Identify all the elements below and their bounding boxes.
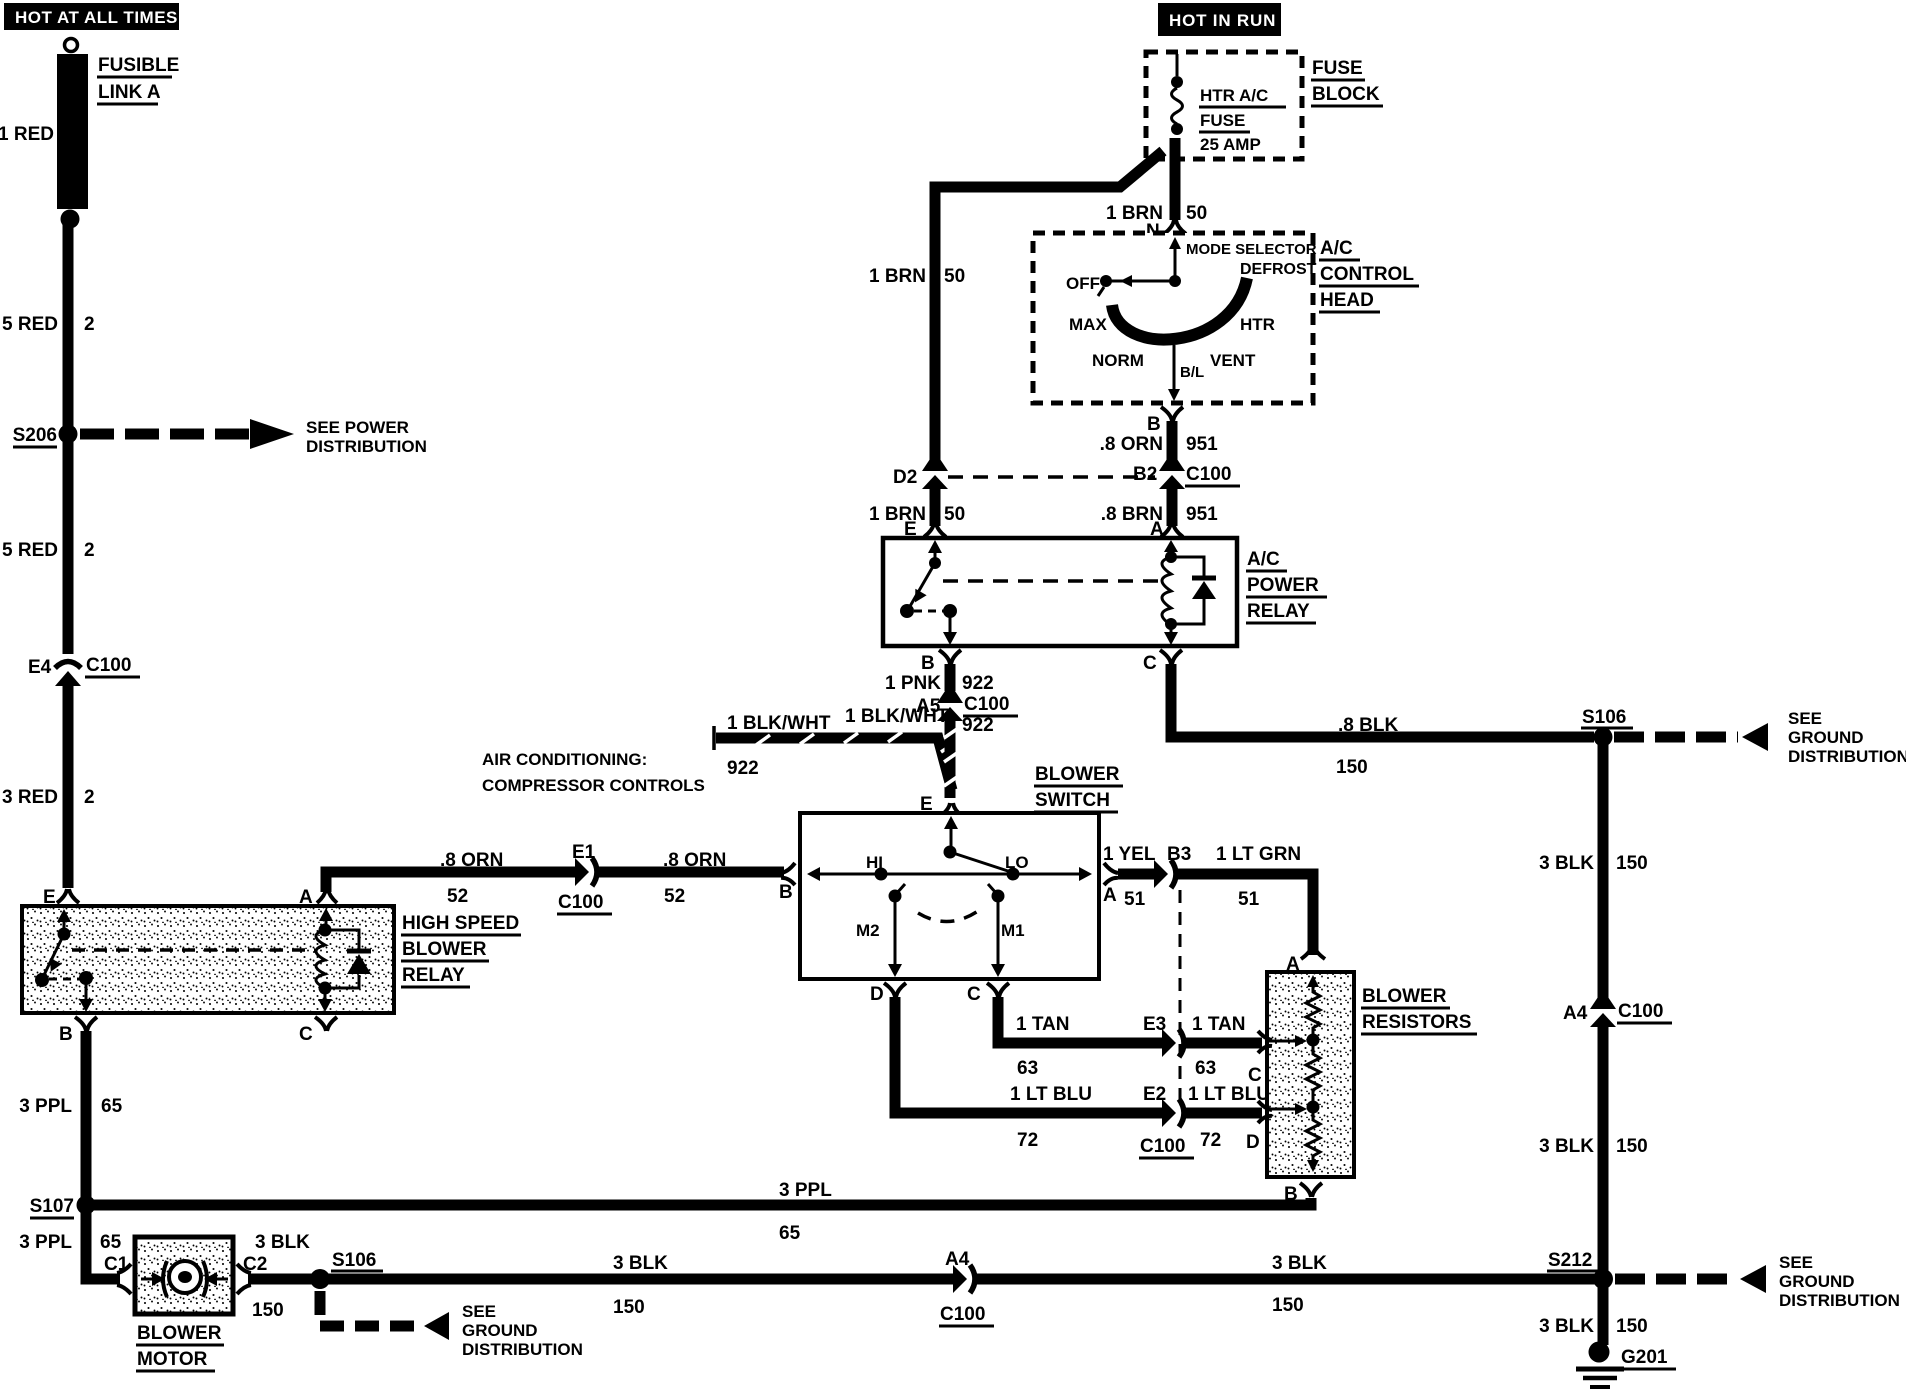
svg-text:MAX: MAX [1069, 315, 1107, 334]
svg-text:C: C [1248, 1065, 1262, 1086]
node S212 [1547, 1250, 1613, 1289]
wire 3 BLK A4 to S212 [1598, 1022, 1609, 1279]
label FUSIBLE LINK A [97, 55, 179, 104]
svg-text:C100: C100 [1618, 1001, 1663, 1022]
banner HOT IN RUN [1158, 3, 1281, 36]
terminal A high speed relay [299, 887, 337, 908]
svg-text:3 BLK: 3 BLK [1539, 853, 1594, 874]
connector A4 C100 (bottom) [939, 1249, 994, 1326]
svg-text:3 BLK: 3 BLK [255, 1232, 310, 1253]
wire dashed S212 to ground distribution [1615, 1253, 1900, 1310]
terminal C1 blower motor [104, 1254, 131, 1294]
svg-text:1 LT BLU: 1 LT BLU [1010, 1084, 1092, 1105]
svg-text:NORM: NORM [1092, 351, 1144, 370]
terminal E high speed relay [43, 887, 79, 908]
wire 3 PPL relay B to S107 [81, 1031, 92, 1200]
terminal E power relay [904, 519, 946, 540]
svg-text:E4: E4 [28, 657, 52, 678]
wire 1 LT BLU E2 to resistors D [1184, 1108, 1262, 1119]
svg-text:HI: HI [866, 853, 883, 872]
resistors D entry arrow [1269, 1103, 1307, 1115]
wire B/L to terminal B [1168, 345, 1180, 401]
wire 1 BRN branch fuse to D2 [935, 151, 1163, 460]
svg-text:1 LT GRN: 1 LT GRN [1216, 844, 1301, 865]
svg-text:HOT IN RUN: HOT IN RUN [1169, 11, 1276, 30]
svg-text:C100: C100 [558, 892, 603, 913]
label 3 BLK 150 (mid segment) [613, 1253, 668, 1318]
label 5 RED 2 [2, 314, 95, 335]
wire 1 PNK relay B to A5 [945, 664, 956, 691]
wire .8 BLK relay C to S106 [1171, 664, 1594, 737]
svg-text:A/C: A/C [1320, 238, 1353, 259]
svg-text:DISTRIBUTION: DISTRIBUTION [1788, 747, 1906, 766]
label 3 PPL 65 (long wire) [779, 1180, 832, 1244]
svg-text:150: 150 [613, 1297, 645, 1318]
svg-text:SWITCH: SWITCH [1035, 790, 1110, 811]
svg-text:C100: C100 [964, 694, 1009, 715]
wire dashed B3 to E2 [1179, 890, 1182, 1105]
svg-text:S206: S206 [13, 425, 57, 446]
svg-text:LO: LO [1005, 853, 1029, 872]
wire dashed S106 to ground distribution (right) [1614, 709, 1906, 766]
relay switch arm (high speed relay) [35, 909, 93, 1012]
label FUSE BLOCK [1311, 58, 1383, 106]
svg-text:25 AMP: 25 AMP [1200, 135, 1261, 154]
connector A5 C100 [916, 691, 1018, 721]
mode selector arc [1112, 278, 1247, 340]
wire left vertical 5 RED / 3 RED [63, 219, 74, 888]
wire 1 LT GRN B3 to resistors A [1176, 874, 1313, 955]
svg-text:2: 2 [84, 540, 95, 561]
svg-text:65: 65 [101, 1096, 123, 1117]
svg-text:RESISTORS: RESISTORS [1362, 1012, 1471, 1033]
svg-text:150: 150 [1272, 1295, 1304, 1316]
svg-text:50: 50 [1186, 203, 1207, 224]
blower motor M1 [135, 1237, 233, 1314]
label BLOWER MOTOR [136, 1323, 224, 1371]
connector E2 C100 [1139, 1084, 1194, 1158]
connector D2 [893, 459, 948, 489]
fuse block box [1146, 52, 1302, 159]
svg-text:D: D [1246, 1132, 1260, 1153]
svg-text:SEE: SEE [462, 1302, 496, 1321]
label .8 ORN 951 [1100, 434, 1218, 455]
svg-text:GROUND: GROUND [1779, 1272, 1855, 1291]
svg-text:951: 951 [1186, 504, 1218, 525]
svg-text:B: B [1147, 414, 1161, 435]
svg-text:HTR A/C: HTR A/C [1200, 86, 1268, 105]
label 3 BLK 150 [1539, 1136, 1648, 1157]
svg-text:A/C: A/C [1247, 549, 1280, 570]
svg-text:2: 2 [84, 787, 95, 808]
svg-text:B3: B3 [1167, 844, 1191, 865]
wire 1 TAN switch C to E3 [998, 997, 1163, 1043]
terminal B control head [1147, 407, 1183, 435]
svg-text:52: 52 [664, 886, 685, 907]
svg-text:1 RED: 1 RED [0, 124, 54, 145]
svg-text:2: 2 [84, 314, 95, 335]
svg-text:63: 63 [1195, 1058, 1216, 1079]
svg-text:1 PNK: 1 PNK [885, 673, 941, 694]
wire 3 BLK blower motor to S212 [248, 1274, 954, 1285]
svg-text:B: B [59, 1024, 73, 1045]
svg-text:150: 150 [1616, 1316, 1648, 1337]
svg-text:DISTRIBUTION: DISTRIBUTION [306, 437, 427, 456]
svg-text:1 TAN: 1 TAN [1016, 1014, 1069, 1035]
terminal B blower resistors [1284, 1183, 1322, 1205]
terminal B blower switch [779, 863, 795, 903]
svg-text:D2: D2 [893, 467, 917, 488]
svg-text:MOTOR: MOTOR [137, 1349, 208, 1370]
terminal B high speed relay [59, 1017, 97, 1045]
blower switch box [800, 813, 1099, 979]
label 1 BLK/WHT (left) [727, 713, 831, 779]
label 1 TAN 63 (left) [1016, 1014, 1069, 1079]
svg-text:OFF: OFF [1066, 274, 1100, 293]
label 3 PPL 65 [19, 1096, 122, 1117]
svg-text:150: 150 [1336, 757, 1368, 778]
label 3 BLK 150 [1539, 853, 1648, 874]
svg-text:DISTRIBUTION: DISTRIBUTION [462, 1340, 583, 1359]
connector A4 C100 (right) [1563, 997, 1672, 1027]
terminal C power relay [1143, 650, 1182, 674]
wire dashed see power distribution [80, 418, 427, 456]
relay coil (power relay) [1162, 540, 1216, 645]
svg-text:.8 ORN: .8 ORN [663, 850, 726, 871]
svg-text:3 BLK: 3 BLK [1539, 1316, 1594, 1337]
label 1 YEL 51 [1103, 844, 1156, 910]
wire .8 ORN from relay A to switch B [326, 872, 576, 892]
wire 3 BLK S106 to A4 [1598, 742, 1609, 998]
label 1 LT GRN 51 [1216, 844, 1301, 910]
svg-text:3 BLK: 3 BLK [1539, 1136, 1594, 1157]
wire 1 BRN fuse to N [1170, 138, 1181, 220]
terminal C blower resistors [1248, 1031, 1272, 1086]
blower switch contacts M2 M1 [856, 884, 1025, 977]
banner HOT AT ALL TIMES [4, 3, 179, 30]
svg-text:.8 ORN: .8 ORN [440, 850, 503, 871]
svg-text:5 RED: 5 RED [2, 314, 58, 335]
svg-text:VENT: VENT [1210, 351, 1256, 370]
svg-text:C100: C100 [1140, 1136, 1185, 1157]
svg-text:1 BRN: 1 BRN [869, 504, 926, 525]
svg-text:A4: A4 [945, 1249, 970, 1270]
svg-text:AIR CONDITIONING:: AIR CONDITIONING: [482, 750, 647, 769]
connector E4 C100 [28, 655, 140, 686]
svg-text:M1: M1 [1001, 921, 1025, 940]
label 3 PPL 65 (motor feed) [19, 1232, 121, 1253]
svg-text:3 BLK: 3 BLK [613, 1253, 668, 1274]
svg-text:50: 50 [944, 266, 965, 287]
svg-text:A: A [299, 887, 313, 908]
label A/C POWER RELAY [1246, 549, 1327, 623]
label 5 RED 2 [2, 540, 95, 561]
terminal C high speed relay [299, 1017, 337, 1045]
terminal A blower resistors [1286, 945, 1325, 975]
A/C power relay box [883, 538, 1237, 646]
node S106 (lower) [310, 1250, 383, 1289]
label A/C CONTROL HEAD [1319, 238, 1419, 312]
label .8 ORN 52 (right) [663, 850, 726, 907]
wire dashed D2 to B2 [948, 475, 1155, 479]
svg-text:S106: S106 [1582, 707, 1626, 728]
svg-text:3 RED: 3 RED [2, 787, 58, 808]
terminal A power relay [1150, 519, 1183, 540]
label BLOWER RESISTORS [1361, 986, 1477, 1034]
node S206 [13, 425, 78, 448]
svg-text:BLOWER: BLOWER [1035, 764, 1120, 785]
relay coil (high speed relay) [316, 908, 371, 1012]
svg-text:BLOWER: BLOWER [402, 939, 487, 960]
svg-text:BLOCK: BLOCK [1312, 84, 1380, 105]
label 1 BRN 50 (below D2) [869, 504, 965, 525]
label BLOWER SWITCH [1034, 764, 1123, 812]
svg-text:63: 63 [1017, 1058, 1038, 1079]
svg-text:SEE: SEE [1779, 1253, 1813, 1272]
svg-text:B: B [1284, 1184, 1298, 1205]
svg-text:922: 922 [962, 715, 994, 736]
svg-text:POWER: POWER [1247, 575, 1319, 596]
svg-text:C100: C100 [1186, 464, 1231, 485]
terminal D blower switch [870, 983, 906, 1005]
label HTR A/C FUSE 25 AMP [1199, 86, 1286, 154]
svg-text:S106: S106 [332, 1250, 376, 1271]
node S107 [30, 1196, 96, 1219]
svg-text:922: 922 [727, 758, 759, 779]
svg-text:FUSE: FUSE [1200, 111, 1245, 130]
svg-text:D: D [870, 984, 884, 1005]
svg-text:951: 951 [1186, 434, 1218, 455]
svg-text:C100: C100 [940, 1304, 985, 1325]
svg-text:1 BLK/WHT: 1 BLK/WHT [727, 713, 831, 734]
svg-text:.8 ORN: .8 ORN [1100, 434, 1163, 455]
label .8 BLK 150 [1336, 715, 1398, 778]
svg-text:S107: S107 [30, 1196, 74, 1217]
svg-text:DEFROST: DEFROST [1240, 261, 1317, 278]
wire dashed S106 to ground distribution [320, 1291, 583, 1359]
svg-text:52: 52 [447, 886, 468, 907]
blower switch dashed arc [918, 911, 978, 922]
svg-text:HEAD: HEAD [1320, 290, 1374, 311]
svg-text:1 BRN: 1 BRN [869, 266, 926, 287]
svg-text:C: C [299, 1024, 313, 1045]
wire 1 BLK/WHT striped to compressor controls [714, 726, 953, 790]
svg-text:51: 51 [1124, 889, 1146, 910]
svg-text:72: 72 [1017, 1130, 1038, 1151]
svg-text:S212: S212 [1548, 1250, 1592, 1271]
relay switch arm (power relay) [900, 540, 957, 645]
label 1 PNK 922 [885, 673, 994, 694]
svg-text:GROUND: GROUND [462, 1321, 538, 1340]
label 3 RED 2 [2, 787, 95, 808]
svg-text:3 PPL: 3 PPL [779, 1180, 832, 1201]
svg-text:3 PPL: 3 PPL [19, 1232, 72, 1253]
wire 922 A5 to switch E (striped) [944, 716, 957, 798]
svg-text:RELAY: RELAY [402, 965, 465, 986]
terminal B power relay [921, 650, 961, 674]
svg-text:1 YEL: 1 YEL [1103, 844, 1156, 865]
svg-text:150: 150 [1616, 853, 1648, 874]
svg-text:FUSIBLE: FUSIBLE [98, 55, 179, 76]
wire .8 BRN B2 to relay A [1167, 484, 1178, 526]
connector B3 [1154, 844, 1191, 888]
label 1 BRN 50 (N drop) [1106, 203, 1207, 224]
svg-text:C: C [1143, 653, 1157, 674]
terminal C2 blower motor [237, 1254, 267, 1294]
relay internal dashed link [72, 948, 315, 952]
connector E3 [1143, 1014, 1184, 1057]
label .8 BRN 951 [1101, 504, 1218, 525]
svg-text:RELAY: RELAY [1247, 601, 1310, 622]
svg-text:SEE POWER: SEE POWER [306, 418, 409, 437]
svg-text:50: 50 [944, 504, 965, 525]
label 3 BLK 150 (motor segment) [252, 1232, 310, 1321]
label 1 LT BLU 72 (left) [1010, 1084, 1092, 1151]
svg-text:E3: E3 [1143, 1014, 1166, 1035]
svg-text:C: C [967, 984, 981, 1005]
svg-text:DISTRIBUTION: DISTRIBUTION [1779, 1291, 1900, 1310]
wire 3 PPL S107 to blower resistors B [86, 1198, 1311, 1205]
svg-text:.8 BLK: .8 BLK [1338, 715, 1398, 736]
wire 1 TAN E3 to resistors C [1184, 1038, 1262, 1049]
svg-text:C100: C100 [86, 655, 131, 676]
svg-text:922: 922 [962, 673, 994, 694]
terminal N control head [1146, 220, 1186, 242]
terminal C blower switch [967, 983, 1009, 1005]
svg-text:B2: B2 [1133, 464, 1157, 485]
high speed blower relay U1 [22, 906, 394, 1013]
svg-text:3 BLK: 3 BLK [1272, 1253, 1327, 1274]
connector E1 C100 [557, 842, 612, 914]
svg-text:1 TAN: 1 TAN [1192, 1014, 1245, 1035]
fusible link A [57, 39, 88, 229]
mode selector switch [1098, 237, 1181, 296]
blower resistors box [1267, 972, 1354, 1177]
ground G201 [1576, 1342, 1676, 1388]
label 1 LT BLU 72 (right) [1188, 1084, 1270, 1151]
svg-text:GROUND: GROUND [1788, 728, 1864, 747]
svg-text:M2: M2 [856, 921, 880, 940]
svg-text:72: 72 [1200, 1130, 1221, 1151]
svg-text:A4: A4 [1563, 1003, 1588, 1024]
resistor R1 [1306, 975, 1320, 1047]
resistor R3 [1306, 1113, 1320, 1172]
svg-text:150: 150 [1616, 1136, 1648, 1157]
svg-text:150: 150 [252, 1300, 284, 1321]
svg-text:B: B [779, 882, 793, 903]
wire 3 BLK S212 to G201 [1598, 1279, 1609, 1345]
svg-text:G201: G201 [1621, 1347, 1668, 1368]
label .8 ORN 52 (left) [440, 850, 503, 907]
svg-text:FUSE: FUSE [1312, 58, 1363, 79]
resistors C entry arrow [1269, 1035, 1307, 1047]
wire 3 PPL S107 to blower motor C1 [86, 1205, 120, 1279]
svg-text:65: 65 [100, 1232, 122, 1253]
svg-text:1 BLK/WHT: 1 BLK/WHT [845, 706, 949, 727]
connector B2 C100 [1133, 459, 1240, 489]
fuse HTR A/C 25 AMP [1171, 54, 1183, 135]
svg-text:E2: E2 [1143, 1084, 1166, 1105]
svg-text:1 LT BLU: 1 LT BLU [1188, 1084, 1270, 1105]
svg-text:MODE SELECTOR: MODE SELECTOR [1186, 241, 1317, 258]
wire 1 LT BLU switch D to E2 [895, 997, 1163, 1113]
svg-text:E1: E1 [572, 842, 596, 863]
svg-text:51: 51 [1238, 889, 1260, 910]
svg-text:HIGH SPEED: HIGH SPEED [402, 913, 519, 934]
wire 1 BRN D2 to relay E [930, 484, 941, 526]
relay internal dashed link (power relay) [943, 579, 1160, 583]
label 1 TAN 63 (right) [1192, 1014, 1245, 1079]
svg-text:CONTROL: CONTROL [1320, 264, 1414, 285]
blower switch wiper [944, 816, 1012, 872]
svg-text:LINK A: LINK A [98, 82, 161, 103]
wire 1 YEL switch A to B3 [1118, 869, 1155, 880]
svg-text:A: A [1103, 885, 1117, 906]
label AIR CONDITIONING: COMPRESSOR CONTROLS [482, 750, 705, 795]
terminal D blower resistors [1246, 1101, 1272, 1153]
svg-text:SEE: SEE [1788, 709, 1822, 728]
svg-text:COMPRESSOR CONTROLS: COMPRESSOR CONTROLS [482, 776, 705, 795]
svg-text:B: B [921, 653, 935, 674]
A/C control head box [1033, 233, 1313, 403]
blower switch contacts HI LO [807, 853, 1092, 881]
node S106 (upper) [1581, 707, 1633, 747]
svg-text:HTR: HTR [1240, 315, 1275, 334]
svg-text:BLOWER: BLOWER [1362, 986, 1447, 1007]
svg-text:HOT AT ALL TIMES: HOT AT ALL TIMES [15, 8, 178, 27]
label HIGH SPEED BLOWER RELAY [401, 913, 521, 987]
label 3 BLK 150 [1539, 1316, 1648, 1337]
svg-text:3 PPL: 3 PPL [19, 1096, 72, 1117]
svg-text:5 RED: 5 RED [2, 540, 58, 561]
wire .8 ORN control head B to B2 [1167, 421, 1178, 460]
terminal A blower switch [1103, 863, 1118, 906]
label 1 BRN 50 (branch) [869, 266, 965, 287]
resistor R2 [1306, 1046, 1320, 1114]
svg-text:BLOWER: BLOWER [137, 1323, 222, 1344]
svg-text:B/L: B/L [1180, 364, 1204, 381]
svg-text:65: 65 [779, 1223, 801, 1244]
terminal E blower switch [920, 794, 963, 817]
label 3 BLK 150 (right segment) [1272, 1253, 1327, 1316]
